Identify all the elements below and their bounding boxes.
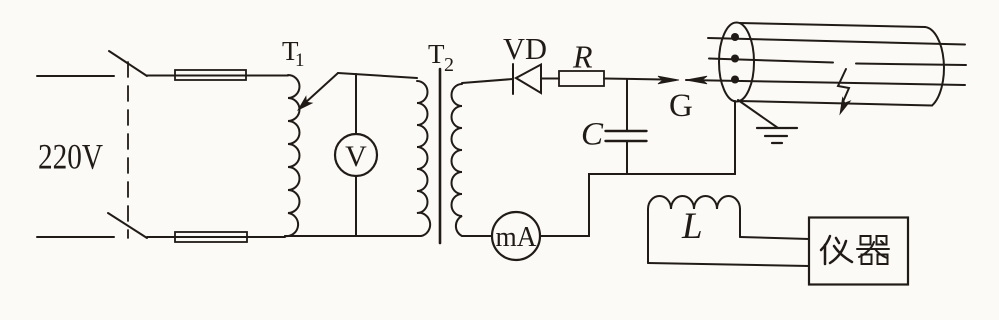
wire: bottom feed from mains (37, 236, 114, 238)
T1 wiper arrow (295, 73, 338, 113)
instrument label 器 (drawn strokes) (857, 236, 889, 264)
svg-text:T: T (428, 39, 445, 69)
diode VD (513, 64, 541, 94)
voltmeter V (335, 134, 377, 176)
electrode lead A (708, 38, 965, 45)
wire: resistor to spark gap (604, 79, 663, 80)
wire: anode to ground diagonal (738, 100, 778, 128)
wire: diode to resistor (541, 78, 559, 80)
wire: voltmeter top lead (355, 74, 357, 134)
wire: capacitor top lead (626, 79, 628, 131)
discharge tube left end ellipse (719, 23, 754, 102)
wire: bottom switch to T1 (147, 236, 285, 238)
svg-text:220V: 220V (38, 137, 103, 177)
electrode lead C (686, 80, 965, 85)
milliammeter mA (492, 212, 540, 260)
svg-text:2: 2 (444, 54, 454, 76)
capacitor C (606, 131, 647, 141)
inductor L (648, 196, 740, 263)
electrode dot C (731, 76, 739, 84)
switch bottom pole blade (108, 213, 147, 238)
wire: top feed from mains (37, 75, 114, 77)
transformer T2 secondary winding (452, 84, 463, 236)
wire: wiper bus to T2 primary (338, 73, 417, 78)
fuse FU bottom (175, 232, 247, 242)
svg-text:G: G (669, 88, 693, 124)
electrode lead B (gap for lightning) (709, 59, 966, 66)
discharge tube top line (740, 23, 925, 27)
wire: L to instrument bottom (648, 263, 809, 266)
switch gang dashed link (127, 62, 129, 238)
discharge tube bottom line (739, 101, 932, 106)
autotransformer T1 winding (285, 75, 300, 236)
wire: top switch to T1 (147, 75, 288, 77)
instrument label 仪 (drawn strokes) (821, 236, 852, 264)
instrument box (809, 218, 908, 285)
transformer T2 core (439, 69, 442, 243)
wire: T2 secondary bottom lead to mA (462, 235, 492, 237)
spark gap right electrode arrow (686, 76, 707, 84)
wire: voltmeter bottom lead (355, 176, 357, 236)
svg-text:C: C (581, 117, 604, 153)
resistor R (559, 71, 604, 86)
svg-text:1: 1 (295, 50, 305, 71)
fuse FU top (175, 70, 246, 80)
wire: secondary top lead to diode (462, 79, 513, 83)
transformer T2 primary winding (417, 81, 430, 236)
svg-text:L: L (681, 206, 703, 247)
wire: L to instrument top (740, 237, 809, 239)
electrode dot A (731, 33, 739, 41)
svg-text:R: R (572, 39, 593, 75)
svg-text:mA: mA (496, 222, 538, 253)
label T2 (428, 39, 454, 76)
spark gap left electrode arrow (658, 76, 679, 84)
svg-text:V: V (345, 140, 367, 173)
wire: capacitor bottom lead (626, 141, 628, 174)
ground (757, 128, 797, 143)
electrode dot B (731, 55, 739, 63)
svg-text:VD: VD (503, 31, 547, 66)
switch top pole blade (109, 51, 147, 76)
wire: return bus mA to tube cathode (540, 101, 735, 236)
label T1 (282, 36, 305, 71)
discharge tube right cap (925, 27, 944, 106)
wire: bottom bus T1 to T2 (285, 235, 421, 237)
lightning discharge symbol (836, 69, 850, 116)
